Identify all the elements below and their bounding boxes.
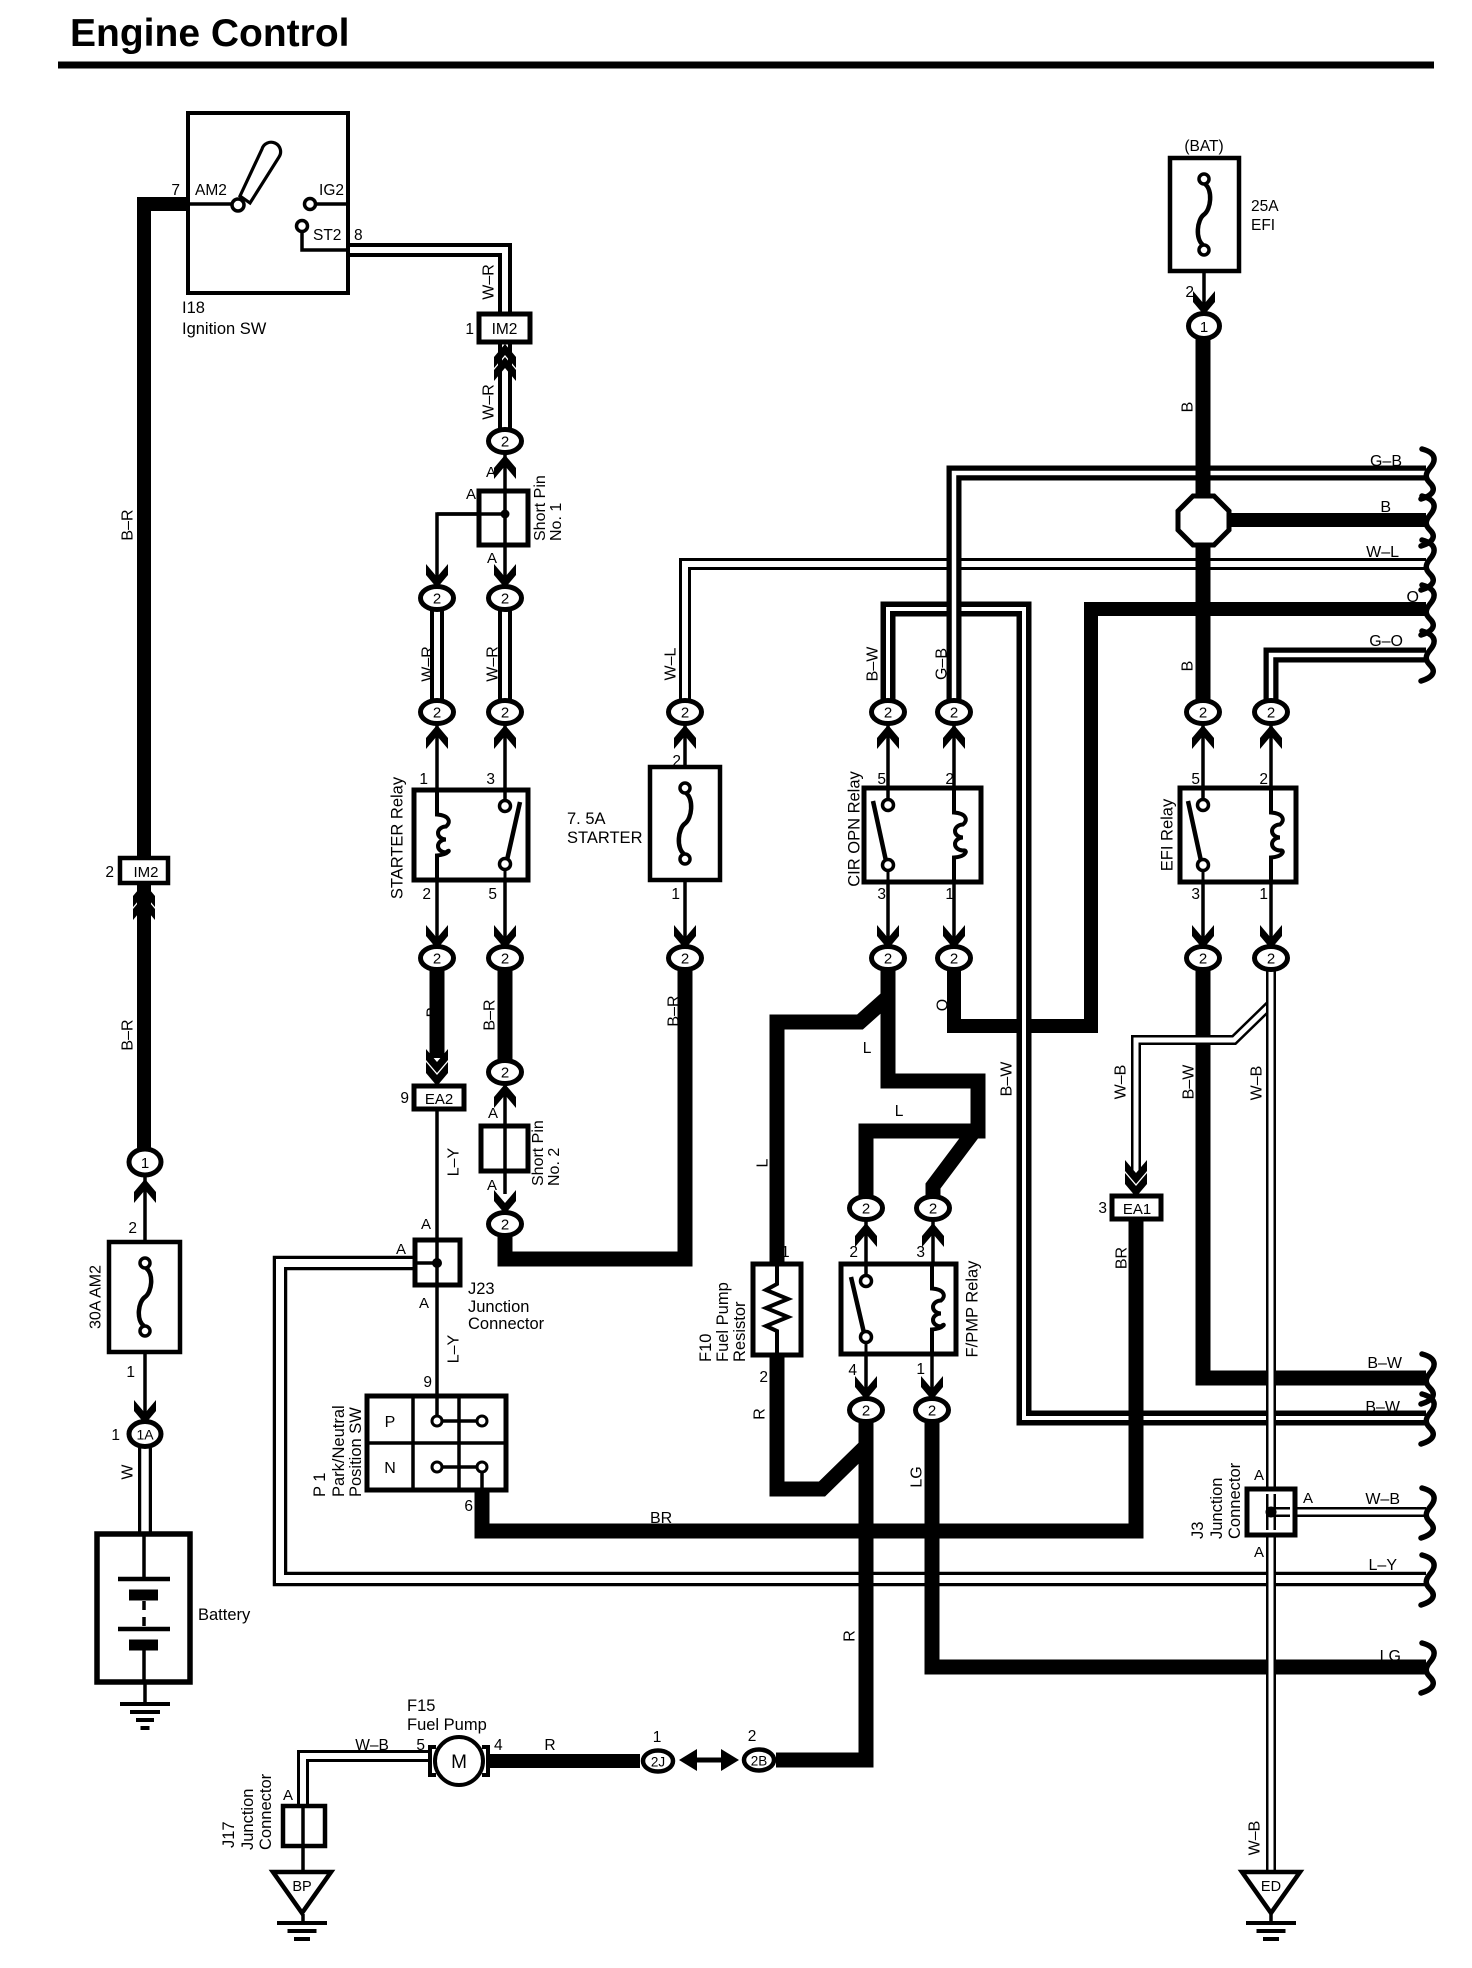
wire STARTER Relay pin 5 to connector — [503, 879, 507, 947]
svg-text:A: A — [466, 486, 476, 503]
bus label LG — [1380, 1648, 1401, 1665]
label 7.5A STARTER — [567, 810, 643, 847]
wire left branch from Short Pin No.1 to col 437 — [437, 514, 505, 587]
label B-R col505 — [482, 999, 499, 1030]
inline connector 2 (col505 row2) — [489, 701, 522, 724]
inline connector 2 (above Short Pin No.2) — [489, 1061, 522, 1084]
EFI Relay switch — [1188, 789, 1209, 881]
svg-text:B–R: B–R — [482, 999, 499, 1030]
label R at F10 — [752, 1408, 769, 1420]
wire G-O bus from right edge to EFI Relay pin 2 — [1271, 655, 1426, 704]
svg-text:A: A — [486, 464, 496, 481]
svg-text:BR: BR — [650, 1510, 672, 1527]
label W battery — [120, 1464, 137, 1480]
wire STARTER Relay pin 2 to connector — [435, 879, 439, 947]
svg-text:W: W — [120, 1464, 137, 1480]
F/PMP Relay coil — [932, 1267, 944, 1352]
svg-text:B–R: B–R — [666, 995, 683, 1026]
svg-text:Fuel Pump: Fuel Pump — [714, 1282, 732, 1362]
svg-text:Engine Control: Engine Control — [70, 12, 349, 55]
svg-text:3: 3 — [1191, 886, 1200, 903]
label CIR OPN Relay — [846, 770, 864, 886]
svg-text:L–Y: L–Y — [1369, 1557, 1398, 1574]
label B-R col685 — [666, 995, 683, 1026]
svg-text:2: 2 — [748, 1728, 757, 1745]
svg-text:W–B: W–B — [1365, 1491, 1400, 1508]
label P 1 Park/Neutral Position SW — [311, 1405, 365, 1497]
inline connector 2 (col505 row1) — [489, 587, 522, 610]
svg-text:W–B: W–B — [1247, 1821, 1264, 1856]
svg-text:F/PMP Relay: F/PMP Relay — [964, 1260, 982, 1358]
svg-text:A: A — [488, 1105, 498, 1122]
svg-text:R: R — [544, 1737, 555, 1754]
svg-text:1: 1 — [126, 1364, 135, 1381]
svg-text:5: 5 — [877, 771, 886, 788]
wire W-R from Ignition SW ST2 to connector IM2 — [348, 250, 505, 316]
svg-text:3: 3 — [916, 1244, 925, 1261]
label (BAT) — [1184, 138, 1223, 155]
svg-text:9: 9 — [423, 1374, 432, 1391]
arrow into inline connector 2 (col 505, below relay) — [494, 925, 516, 949]
svg-text:1: 1 — [945, 886, 954, 903]
pin 2 above 7.5A fuse — [672, 753, 681, 770]
svg-text:W–R: W–R — [481, 264, 498, 300]
label 30A AM2 — [88, 1265, 105, 1329]
wire EFI Relay pin 2 stub — [1269, 724, 1273, 791]
arrow into F/PMP Relay pin 2 connector — [855, 1223, 877, 1247]
inline connector 2 (F/PMP pin1) — [916, 1399, 949, 1422]
svg-text:1: 1 — [781, 1244, 790, 1261]
bus label W-L — [1366, 544, 1399, 561]
svg-text:LG: LG — [1380, 1648, 1401, 1665]
wire W-R col 437 between connectors — [430, 611, 444, 700]
svg-text:G–O: G–O — [1369, 633, 1403, 650]
P1 contact N row — [432, 1462, 487, 1489]
wire B main feed from EFI fuse down to EFI Relay pin 5 — [1196, 338, 1211, 700]
connector 2B oval — [744, 1750, 774, 1771]
svg-text:W–R: W–R — [420, 646, 437, 682]
arrow into inline connector 2 (col 505, below Short Pin No.2) — [494, 1190, 516, 1214]
wire col 505 through Short Pin No.2 — [503, 1083, 507, 1194]
arrow into inline connector 2 (col 505, row2) — [494, 725, 516, 749]
wire EFI Relay pin 1 to connector — [1269, 879, 1273, 947]
pin IG2 — [319, 182, 344, 199]
svg-text:3: 3 — [1098, 1200, 1107, 1217]
inline connector 2 (W-L) — [669, 701, 702, 724]
label F15 Fuel Pump — [407, 1697, 487, 1734]
bus arrow L-Y at right edge — [1421, 1555, 1434, 1605]
W-B thin wire from J3 to right edge — [1298, 1507, 1427, 1517]
svg-text:Park/Neutral: Park/Neutral — [330, 1405, 348, 1497]
svg-text:W–L: W–L — [1366, 544, 1399, 561]
svg-text:EA1: EA1 — [1123, 1201, 1151, 1218]
svg-text:1: 1 — [653, 1729, 662, 1746]
svg-text:STARTER Relay: STARTER Relay — [389, 776, 407, 899]
P1 contact P row — [432, 1398, 487, 1426]
pin 1 F10 — [781, 1244, 790, 1261]
bus arrow G-B at right edge — [1421, 449, 1434, 499]
svg-text:7: 7 — [171, 182, 180, 199]
Short Pin No. 2 box — [481, 1126, 528, 1171]
svg-text:ED: ED — [1261, 1879, 1281, 1895]
wire L from CIR OPN Relay pin 3 to F10 Fuel Pump Resistor — [777, 970, 888, 1264]
svg-text:B–W: B–W — [865, 646, 882, 682]
wire B-R from STARTER Relay pin 5 connector down — [498, 970, 513, 1062]
pin A above short pin2 — [488, 1105, 498, 1122]
svg-text:2: 2 — [681, 951, 689, 968]
wire CIR OPN Relay pin 1 to connector — [952, 879, 956, 947]
pin 1 2J — [653, 1729, 662, 1746]
svg-text:L–Y: L–Y — [446, 1334, 463, 1363]
label J17 Junction Connector — [220, 1773, 275, 1850]
wire R from F/PMP Relay pin 4 down to fuel pump connector 2B — [776, 1422, 866, 1760]
svg-text:L: L — [863, 1040, 872, 1057]
cir opn relay pin 3 — [877, 886, 886, 903]
efi relay pin 1 — [1259, 886, 1268, 903]
svg-text:2: 2 — [501, 951, 509, 968]
inline connector 2 (starter out R) — [489, 947, 522, 970]
label L at F10 branch — [755, 1158, 772, 1167]
label W-R at ST2 — [481, 264, 498, 300]
svg-text:EFI: EFI — [1251, 217, 1275, 234]
svg-text:O: O — [935, 999, 952, 1011]
svg-text:5: 5 — [488, 886, 497, 903]
wire R from F10 Fuel Pump Resistor pin 2 — [777, 1353, 866, 1489]
svg-text:5: 5 — [1191, 771, 1200, 788]
svg-text:2: 2 — [672, 753, 681, 770]
label Short Pin No. 1 — [532, 475, 565, 541]
bus arrow W-B at right edge — [1421, 1488, 1434, 1538]
EA1 box — [1112, 1196, 1161, 1219]
svg-text:LG: LG — [909, 1466, 926, 1487]
connector IM2 (pin 2) box — [120, 858, 168, 883]
svg-text:Battery: Battery — [198, 1606, 251, 1624]
svg-text:B–R: B–R — [120, 509, 137, 540]
EFI Relay coil — [1271, 791, 1283, 880]
wire W-R col 505 between connectors — [498, 611, 512, 700]
svg-text:Ignition SW: Ignition SW — [182, 320, 267, 338]
svg-text:Junction: Junction — [468, 1298, 529, 1316]
svg-text:Position SW: Position SW — [347, 1407, 365, 1497]
pin A above J3 — [1254, 1467, 1264, 1484]
svg-text:R: R — [842, 1630, 859, 1642]
arrow into inline connector 2 (col 1271, below relay) — [1260, 925, 1282, 949]
wire B-W from EFI Relay pin 3 to right edge — [1203, 970, 1426, 1378]
pin A below short pin1 — [487, 550, 497, 567]
pin A below short pin2 — [487, 1177, 497, 1194]
svg-text:2: 2 — [433, 591, 441, 608]
pin 1 at IM2 — [465, 321, 474, 338]
label W-B fuel pump — [355, 1737, 389, 1754]
svg-text:BR: BR — [1114, 1247, 1131, 1269]
cir opn relay pin 5 — [877, 771, 886, 788]
double arrow between 2J and 2B — [679, 1749, 739, 1771]
svg-text:R: R — [752, 1408, 769, 1420]
svg-text:A: A — [421, 1216, 431, 1233]
svg-text:A: A — [1254, 1467, 1264, 1484]
pin 4 fuel pump — [494, 1737, 503, 1754]
svg-text:J23: J23 — [468, 1280, 495, 1298]
wire short pin no.1 feed col 505 — [503, 453, 507, 491]
label W-R below IM2 — [481, 384, 498, 420]
inline connector 2 (col437 row2) — [421, 701, 454, 724]
connector 1A oval — [129, 1422, 161, 1447]
arrow into F/PMP Relay pin 1 connector — [921, 1376, 943, 1400]
label W-B at EA1 — [1113, 1065, 1130, 1100]
label BR bus — [650, 1510, 672, 1527]
CIR OPN Relay box — [864, 788, 981, 882]
wire O from CIR OPN Relay pin 1 to right edge — [954, 609, 1426, 1026]
svg-text:1: 1 — [465, 321, 474, 338]
CIR OPN Relay coil — [954, 791, 966, 880]
svg-text:2: 2 — [433, 951, 441, 968]
svg-text:P 1: P 1 — [311, 1473, 329, 1497]
inline connector 2 (7.5A out) — [669, 947, 702, 970]
BP ground triangle — [273, 1872, 331, 1913]
svg-text:No. 2: No. 2 — [546, 1148, 563, 1186]
label B-W at CIR OPN — [865, 646, 882, 682]
fpmp relay pin 3 — [916, 1244, 925, 1261]
P1 Park/Neutral Position SW box — [367, 1396, 506, 1490]
pin A at J17 — [283, 1787, 293, 1804]
wire J17 Junction Connector to BP ground — [301, 1846, 305, 1872]
connector 1 (25A EFI fuse output) — [1189, 314, 1220, 339]
ground below ED — [1246, 1923, 1296, 1939]
svg-text:W–R: W–R — [481, 384, 498, 420]
svg-text:A: A — [487, 1177, 497, 1194]
svg-text:2: 2 — [1199, 951, 1207, 968]
svg-text:2: 2 — [433, 705, 441, 722]
wire 30A AM2 fuse to connector 1 — [143, 1177, 147, 1242]
arrow into inline connector 2 (col 437, below relay) — [426, 925, 448, 949]
pin A above J23 — [421, 1216, 431, 1233]
arrow into inline connector 2 (col 1203, below relay) — [1192, 925, 1214, 949]
inline connector 2 (W-R upper) — [489, 430, 522, 453]
F/PMP Relay switch — [851, 1265, 872, 1353]
arrow into inline connector 2 (col 1203, B) — [1192, 725, 1214, 749]
svg-text:F15: F15 — [407, 1697, 435, 1715]
svg-text:F10: F10 — [697, 1334, 715, 1362]
bus arrow G-O at right edge — [1421, 631, 1434, 681]
bus arrow B-W lower at right edge — [1421, 1394, 1434, 1444]
label I18 / Ignition SW — [182, 299, 267, 338]
svg-text:1: 1 — [111, 1427, 120, 1444]
label F10 Fuel Pump Resistor — [697, 1282, 749, 1362]
arrow into EA2 — [426, 1049, 448, 1086]
label B col437 — [425, 1007, 442, 1018]
wire BR from EA1 to P1 Park/Neutral Position SW pin 6 — [482, 1218, 1136, 1531]
pin 7 AM2 — [171, 182, 227, 199]
STARTER Relay box — [414, 790, 528, 880]
pin 1 at 1A — [111, 1427, 120, 1444]
cir opn relay pin 2 — [945, 771, 954, 788]
svg-text:A: A — [396, 1241, 406, 1258]
svg-text:2: 2 — [862, 1201, 870, 1218]
7.5A STARTER fuse box — [650, 767, 720, 880]
svg-text:3: 3 — [486, 771, 495, 788]
F10 Fuel Pump Resistor box — [753, 1264, 801, 1355]
svg-text:2: 2 — [884, 705, 892, 722]
wire F/PMP Relay pin 1 output — [930, 1354, 934, 1399]
svg-text:2: 2 — [422, 886, 431, 903]
svg-text:B–W: B–W — [1367, 1355, 1403, 1372]
svg-text:A: A — [487, 550, 497, 567]
25A EFI fuse box — [1170, 158, 1239, 271]
pin 2 F10 — [759, 1369, 768, 1386]
EA2 box — [414, 1086, 464, 1109]
svg-text:G–B: G–B — [1370, 453, 1402, 470]
svg-text:2: 2 — [950, 705, 958, 722]
Battery cell symbol — [118, 1534, 170, 1682]
connector 1 (round, 30A AM2 fuse input) — [129, 1149, 161, 1175]
svg-text:W–B: W–B — [1249, 1066, 1266, 1101]
wire W-L bus from right edge to 7.5A STARTER fuse column — [685, 564, 1426, 704]
wire W-B from EFI Relay pin 1 down to ED ground — [1266, 970, 1276, 1872]
pin 5 fuel pump — [416, 1737, 425, 1754]
svg-text:8: 8 — [354, 227, 363, 244]
svg-text:BP: BP — [292, 1879, 311, 1895]
wire B bus from splice to right edge — [1222, 513, 1426, 527]
svg-text:2J: 2J — [651, 1755, 665, 1770]
svg-text:2: 2 — [1267, 951, 1275, 968]
fpmp relay pin 2 — [849, 1244, 858, 1261]
label B-R upper — [120, 509, 137, 540]
svg-text:EA2: EA2 — [425, 1091, 453, 1108]
label 25A EFI — [1251, 198, 1279, 234]
svg-text:L–Y: L–Y — [446, 1147, 463, 1176]
wire L-Y EA2 to J23 — [435, 1106, 439, 1242]
inline connector 2 (below Short Pin No.2) — [489, 1213, 522, 1236]
svg-text:A: A — [1254, 1544, 1264, 1561]
ignition switch key lever — [189, 142, 281, 211]
wire BP triangle ground stem — [301, 1914, 305, 1921]
svg-text:1: 1 — [1259, 886, 1268, 903]
svg-text:Junction: Junction — [239, 1789, 257, 1850]
bus label B — [1380, 499, 1391, 516]
arrow into inline connector 2 (col 437, row1) — [426, 564, 448, 588]
svg-text:B: B — [1180, 661, 1197, 672]
arrow into connector 1 (30A AM2 fuse top) — [134, 1179, 156, 1203]
bus arrow B-W upper at right edge — [1421, 1354, 1434, 1404]
inline connector 2 (B) — [1187, 701, 1220, 724]
STARTER Relay switch — [500, 790, 521, 880]
svg-text:A: A — [283, 1787, 293, 1804]
pin A above short pin1 col505 — [486, 464, 496, 481]
label L-Y below J23 — [446, 1334, 463, 1363]
svg-text:CIR OPN Relay: CIR OPN Relay — [846, 770, 864, 886]
J3 Junction Connector box — [1247, 1489, 1295, 1535]
wire col 505 short pin no.1 lower stub — [503, 545, 507, 587]
Battery box — [97, 1534, 190, 1682]
wire Battery to ground — [143, 1680, 147, 1704]
wire EFI Relay pin 5 stub — [1201, 724, 1205, 791]
svg-text:B: B — [425, 1007, 442, 1018]
inline connector 2 (G-O) — [1255, 701, 1288, 724]
wire LG from F/PMP Relay pin 1 to right edge — [932, 1422, 1426, 1667]
label B-W at EFI pin3 — [1181, 1064, 1198, 1100]
title underline — [58, 62, 1434, 69]
STARTER Relay coil — [437, 793, 449, 878]
svg-text:4: 4 — [848, 1362, 857, 1379]
svg-text:2: 2 — [105, 864, 114, 881]
svg-text:Connector: Connector — [1226, 1462, 1244, 1539]
svg-text:J17: J17 — [220, 1821, 238, 1848]
svg-text:N: N — [384, 1460, 396, 1477]
svg-text:W–R: W–R — [485, 646, 502, 682]
wire B-W from CIR OPN Relay pin 5 to right edge — [888, 609, 1426, 1418]
svg-text:2: 2 — [862, 1403, 870, 1420]
inline connector 2 (F/PMP pin3) — [917, 1197, 950, 1220]
wire L-Y from J23 Junction Connector to right edge — [280, 1263, 1426, 1579]
svg-text:2: 2 — [1267, 705, 1275, 722]
ignition switch I18 box — [188, 113, 348, 293]
svg-text:2: 2 — [1185, 284, 1194, 301]
arrow into inline connector 2 (col 685, below fuse) — [674, 925, 696, 949]
cir opn relay pin 1 — [945, 886, 954, 903]
svg-text:1: 1 — [1200, 319, 1208, 336]
efi relay pin 2 — [1259, 771, 1268, 788]
pin A left of J23 — [396, 1241, 406, 1258]
wire EFI Relay pin 3 to connector — [1201, 879, 1205, 947]
svg-text:EFI Relay: EFI Relay — [1159, 798, 1177, 871]
connector 2J oval — [643, 1751, 673, 1772]
svg-text:2: 2 — [501, 1065, 509, 1082]
label B at EFI fuse — [1180, 402, 1197, 413]
svg-text:L: L — [755, 1158, 772, 1167]
wire 30A AM2 fuse output to connector 1A — [143, 1352, 147, 1422]
svg-text:2: 2 — [759, 1369, 768, 1386]
ignition switch IG2 terminal — [305, 199, 349, 210]
inline connector 2 (col437 row1) — [421, 587, 454, 610]
svg-text:J3: J3 — [1189, 1522, 1207, 1539]
label J23 Junction Connector — [468, 1280, 545, 1333]
arrow into inline connector 2 (col 954, G-B) — [943, 725, 965, 749]
pin 6 P1 — [464, 1498, 473, 1515]
bus label G-O — [1369, 633, 1403, 650]
svg-text:IG2: IG2 — [319, 182, 344, 199]
svg-text:2: 2 — [128, 1220, 137, 1237]
svg-text:M: M — [451, 1752, 467, 1773]
wire G-B connector into CIR OPN Relay pin 2 — [952, 724, 956, 791]
svg-text:25A: 25A — [1251, 198, 1279, 215]
label L horizontal 2 — [895, 1103, 904, 1120]
bus label B-W lower — [1365, 1399, 1401, 1416]
pin A left of short pin1 — [466, 486, 476, 503]
label O vertical — [935, 999, 952, 1011]
wire W-B branch to EA1 — [1136, 1004, 1271, 1176]
svg-text:2B: 2B — [751, 1754, 768, 1769]
svg-text:2: 2 — [945, 771, 954, 788]
inline connector 2 (F/PMP pin4) — [850, 1399, 883, 1422]
svg-text:1: 1 — [671, 886, 680, 903]
bus arrow O at right edge — [1421, 585, 1434, 635]
svg-text:2: 2 — [1199, 705, 1207, 722]
wire W-L connector into 7.5A STARTER fuse — [683, 724, 687, 767]
inline connector 2 (B-W) — [872, 701, 905, 724]
svg-text:2: 2 — [1259, 771, 1268, 788]
pin 3 EA1 — [1098, 1200, 1107, 1217]
svg-text:IM2: IM2 — [133, 864, 158, 881]
ED ground triangle — [1242, 1872, 1300, 1913]
pin 2 at IM2 left — [105, 864, 114, 881]
svg-text:Short Pin: Short Pin — [532, 475, 549, 541]
svg-text:2: 2 — [928, 1403, 936, 1420]
J23 Junction Connector box — [415, 1240, 460, 1285]
svg-text:7. 5A: 7. 5A — [567, 810, 606, 828]
ground below Battery — [120, 1704, 170, 1728]
wire L-Y J23 to P1 pin 9 — [435, 1285, 439, 1398]
svg-text:B: B — [1380, 499, 1391, 516]
